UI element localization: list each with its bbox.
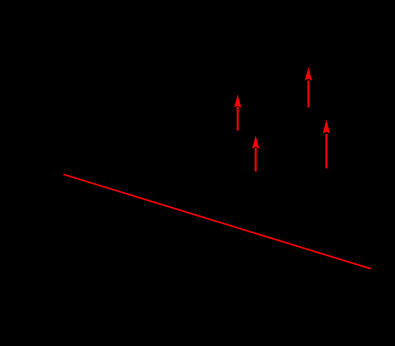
arrow 1 bbox=[234, 95, 241, 131]
trend line bbox=[64, 174, 372, 268]
arrow 2 bbox=[252, 136, 259, 172]
arrow 3 bbox=[305, 68, 312, 108]
arrow 4 bbox=[323, 120, 330, 169]
